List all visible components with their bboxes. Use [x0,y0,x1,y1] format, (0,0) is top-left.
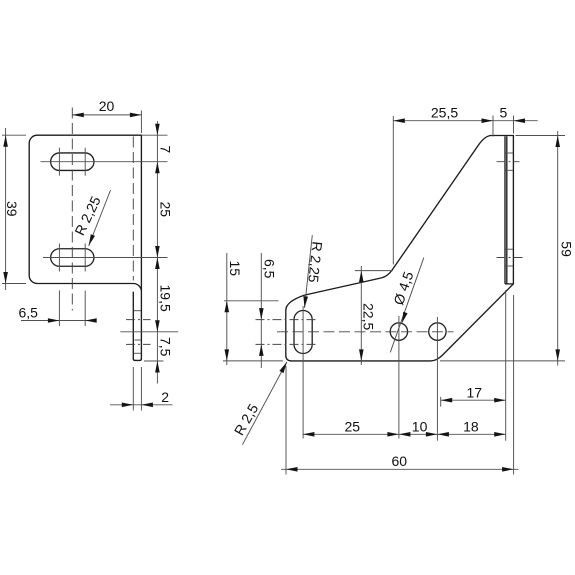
arrow leader dia4.5 [402,312,408,324]
leader R 2,5 [242,362,287,445]
arrow 59-top [555,136,560,148]
dimension row 25 / 10 / 18 [303,433,506,435]
arrow 10-left [399,432,411,437]
svg-text:10: 10 [412,418,428,434]
svg-text:39: 39 [4,201,20,217]
svg-text:2: 2 [161,389,169,405]
extension line tab-slot center [120,331,178,333]
hole 1 [390,323,407,340]
svg-text:18: 18 [463,418,479,434]
arrow 60-right [502,467,513,472]
extension knee (25,5 left) [392,116,394,265]
arrow 7.5-bottom [155,361,160,373]
flange slot centerlines [497,161,520,163]
arrow 17-left [441,398,453,403]
slot ticks in flange (slot2) [506,248,514,250]
dimension 59 [557,131,559,366]
slot1 horizontal centerline / extension [41,161,168,163]
dimension 15 [226,253,228,365]
extension 60 right [513,295,515,475]
svg-text:7,5: 7,5 [157,337,173,357]
svg-text:17: 17 [467,385,483,401]
bend line (dashed) [132,137,134,281]
arrow 25.5-right [482,118,494,123]
arrow 25R-right [387,432,399,437]
dimension 25,5 and 5 [393,120,537,122]
arrow 20-left [72,113,84,118]
arrow 15-top [225,301,230,313]
arrow 39-bottom [3,272,8,284]
svg-text:59: 59 [559,241,575,257]
arrow 22.5-top [359,271,364,283]
arrow leader R2.25R [303,296,308,308]
svg-text:6,5: 6,5 [261,259,277,279]
plate outline left view [29,135,141,360]
arrow 6.5-right [85,318,97,323]
svg-text:20: 20 [99,98,115,114]
arrow 18-right [494,432,506,437]
arrow 6.5R-top [259,308,264,320]
extension top right (59) [516,135,566,137]
arrow 15-bottom [225,349,230,361]
extension top edge right [141,134,167,136]
arrow 19.5-bottom / 7.5-top [155,320,160,332]
arrow 6.5R-bottom [259,344,264,356]
outline right view [286,136,514,361]
dimension 60 [281,468,519,470]
arrow leader R2.25 [89,234,95,246]
svg-text:6,5: 6,5 [18,305,38,321]
horizontal centerline through slot and holes [277,331,454,333]
svg-text:7: 7 [157,145,173,153]
arrow 17-right [494,398,506,403]
slot2 arc-center ticks [58,244,60,272]
extension 17/18 right [505,290,507,441]
flange bottom edge [505,283,513,285]
vertical slot in base [294,311,312,354]
arrow 18-left [437,432,449,437]
arrow 6.5-left [48,318,60,323]
slot arc-center dash-dot lines [256,319,317,321]
leader R 2,25 left view [89,190,111,246]
extension bottom right (59) [440,360,565,362]
slot ticks in flange (slot1) [506,152,514,154]
arrow 20-right [130,113,142,118]
slot2 horizontal centerline / extension [43,257,168,259]
hole 2 [429,323,446,340]
dimension 6,5 right view [260,253,262,368]
extension 22,5 top [355,270,393,272]
extension 15 top [224,300,279,302]
dimension 17 [441,399,506,401]
svg-text:5: 5 [500,105,508,121]
dimension 7 / 25 / 19,5 / 7,5 shared dim line [156,121,158,384]
arrowheads right view [225,118,561,471]
vertical centerline [71,108,73,311]
extension 5 right [513,116,515,134]
slot1 arc-center ticks [58,148,60,176]
arrow 7-bottom / 25-top [155,162,160,174]
extension 60 left [285,366,287,475]
tab slot arc-center dash-dot lines [126,319,151,321]
extension 25,5 right / 5 left [492,116,494,137]
leader R 2,25 right view [305,235,313,308]
slot 2 (lower slotted hole) [51,249,94,267]
arrow 25-bottom [155,246,160,258]
arrow 5-right [514,118,526,123]
arrow 19.5-top [155,258,160,270]
arrowheads left view [3,113,159,408]
extension line tab bottom [144,360,164,362]
svg-text:15: 15 [227,261,243,277]
extension 17 left stub [440,397,442,407]
dimension 20 [72,114,141,116]
arrow 22.5-bottom [359,349,364,361]
svg-text:19,5: 19,5 [157,285,173,312]
dimension 6,5 left view [21,320,97,322]
svg-text:25,5: 25,5 [431,105,458,121]
hole1 vertical centerline / extension [398,316,400,439]
arrow 39-top [3,135,8,147]
arrow 2-left [122,403,134,408]
svg-text:25: 25 [345,418,361,434]
slot 1 (upper slotted hole) [51,153,94,171]
svg-text:22,5: 22,5 [361,303,377,330]
extension 15 bottom [223,360,283,362]
bend lines of flange (double vertical) [504,136,506,284]
arrow 7-top [155,124,160,136]
dimension 39 [5,128,7,290]
arrow leader R2.5 [279,362,287,373]
arrow 10-right [426,432,438,437]
dimension 22,5 [360,266,362,365]
hole2 vertical centerline / extension [436,317,438,441]
svg-text:25: 25 [157,202,173,218]
arrow 59-bottom [555,349,560,361]
arrow 25R-left [303,432,315,437]
leader dia 4,5 [390,258,424,353]
tab slot tangent ticks [134,310,141,312]
arrow 2-right [141,403,153,408]
arrow 60-left [286,467,298,472]
dimension 2 [132,367,134,411]
arrow 25.5-left [393,118,405,123]
slot vertical centerline / extension [302,306,304,439]
svg-text:60: 60 [392,453,408,469]
